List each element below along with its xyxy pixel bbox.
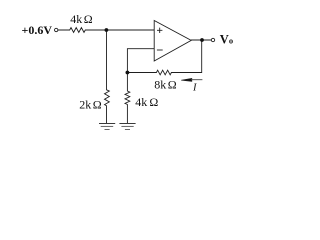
svg-text:I: I (192, 82, 197, 93)
svg-text:8kΩ: 8kΩ (154, 78, 177, 92)
svg-text:4kΩ: 4kΩ (70, 12, 93, 26)
svg-text:+0.6V: +0.6V (22, 23, 53, 37)
svg-text:2kΩ: 2kΩ (79, 98, 102, 112)
svg-text:4kΩ: 4kΩ (135, 95, 158, 109)
svg-text:Vo: Vo (220, 33, 233, 47)
